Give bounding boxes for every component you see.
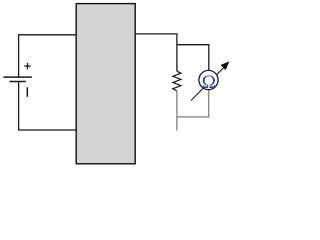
wire resistor bottom stub [176,91,178,131]
ohmmeter M1 (circle) [199,70,218,89]
wire meter bottom to resistor branch [177,90,209,117]
wire battery bottom to block [19,82,77,131]
wire battery top to block [19,35,77,77]
wire block to resistor branch [135,34,177,71]
svg-text:Ω: Ω [202,72,216,93]
variable arrow through meter [191,66,225,100]
battery - label (vertical bar) [26,87,28,97]
block U1 (gray box) [76,4,135,164]
resistor R1 (zigzag) [173,71,181,91]
wire branch to meter top [177,45,209,71]
battery + label [24,63,30,69]
battery BT1 [3,77,31,81]
